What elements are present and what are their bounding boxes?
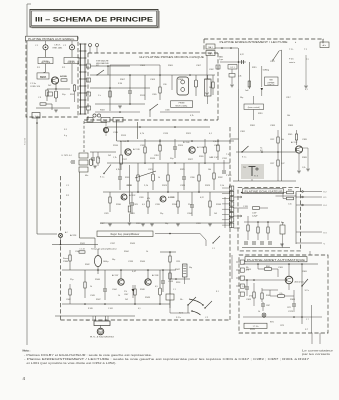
svg-text:b: b <box>295 42 297 44</box>
switch S2 <box>150 104 158 110</box>
switch S4 <box>188 297 196 305</box>
cap ll1 <box>103 288 107 290</box>
svg-text:0,22: 0,22 <box>240 54 244 56</box>
jack J2 <box>69 45 74 50</box>
svg-text:Le commutateur: Le commutateur <box>302 350 333 353</box>
eg wire k <box>276 195 297 197</box>
bottom jacks <box>93 114 96 117</box>
tape head TH3 symbol <box>251 167 253 177</box>
svg-text:R383: R383 <box>288 189 292 191</box>
svg-text:P 4 b: P 4 b <box>289 59 295 61</box>
svg-text:C324: C324 <box>214 145 220 147</box>
transistor Q8 <box>145 279 151 285</box>
aa right vline2 <box>311 305 313 333</box>
eg res 1 <box>287 191 294 194</box>
svg-text:2,2kpF: 2,2kpF <box>252 216 258 218</box>
svg-text:S 2 1: S 2 1 <box>230 67 234 69</box>
svg-text:0,1: 0,1 <box>138 308 141 310</box>
svg-text:R 4740: R 4740 <box>25 137 27 145</box>
svg-text:1k: 1k <box>118 295 121 297</box>
wire v137 <box>137 122 139 139</box>
svg-text:C317: C317 <box>122 159 128 161</box>
svg-text:C335: C335 <box>155 204 161 206</box>
svg-text:C319: C319 <box>163 133 169 135</box>
wire motor-l <box>92 316 94 319</box>
svg-text:R331: R331 <box>136 223 141 225</box>
svg-text:C347: C347 <box>124 294 128 296</box>
svg-text:C309: C309 <box>150 79 156 81</box>
svg-text:R309: R309 <box>178 79 184 81</box>
svg-text:0,47: 0,47 <box>132 271 137 273</box>
eg wire in4 <box>234 227 241 229</box>
svg-text:C 341: C 341 <box>108 308 113 310</box>
res l1 <box>109 197 111 203</box>
wire q1 <box>55 83 57 89</box>
svg-text:R324: R324 <box>178 145 184 147</box>
capacitor C3 <box>128 90 132 92</box>
svg-text:T 4 L: T 4 L <box>226 154 231 156</box>
cap l1 <box>130 202 134 204</box>
prise lecture box <box>38 58 53 64</box>
svg-text:6,8Meg: 6,8Meg <box>263 70 269 72</box>
bottom connector b2 <box>101 117 110 122</box>
wire c-top <box>215 47 238 49</box>
central platine right dashed <box>229 127 231 320</box>
svg-text:R383: R383 <box>288 125 294 127</box>
motor bus <box>55 315 135 317</box>
jack J1 <box>43 45 48 50</box>
svg-text:R 2: R 2 <box>62 67 66 69</box>
wire b-drop dashed <box>83 121 85 152</box>
platine prises aux enreg box <box>26 37 78 117</box>
platine prises aux enreg label <box>26 36 78 41</box>
wire ra1 down <box>206 56 208 93</box>
svg-text:2 W 4: 2 W 4 <box>226 175 232 177</box>
svg-text:R344: R344 <box>124 251 129 253</box>
res c-l3k <box>229 74 235 78</box>
svg-text:C331: C331 <box>222 158 228 160</box>
platine arret automatique label <box>245 257 307 262</box>
res m8 <box>167 175 169 181</box>
svg-text:1k: 1k <box>209 87 211 89</box>
svg-text:C322: C322 <box>270 139 274 141</box>
pin stack feeds <box>222 187 229 189</box>
pin right edge <box>216 65 220 69</box>
wire c to center <box>230 138 239 140</box>
svg-text:C313: C313 <box>270 61 275 63</box>
svg-text:C343: C343 <box>168 281 174 283</box>
wire long left <box>36 117 38 234</box>
svg-text:25µ: 25µ <box>160 213 164 215</box>
svg-text:4,7k: 4,7k <box>140 133 145 135</box>
svg-text:R338: R338 <box>216 204 222 206</box>
aa cap right <box>292 303 296 305</box>
svg-text:10k: 10k <box>281 139 284 141</box>
wire head link <box>233 180 296 182</box>
svg-text:R329: R329 <box>205 185 211 187</box>
svg-text:C323: C323 <box>126 185 132 187</box>
aa res left1 <box>253 292 255 298</box>
pin square b2 <box>87 78 91 82</box>
svg-text:50µ: 50µ <box>170 158 174 160</box>
svg-text:C329: C329 <box>104 213 109 215</box>
svg-text:R385: R385 <box>302 157 308 159</box>
wire arret top feed <box>309 251 311 255</box>
res m3 <box>159 145 161 151</box>
svg-text:C325: C325 <box>133 204 139 206</box>
svg-text:R88: R88 <box>269 79 272 81</box>
svg-text:K 3: K 3 <box>324 232 328 234</box>
svg-text:C 2: C 2 <box>205 317 209 319</box>
svg-text:2,87: 2,87 <box>281 163 285 165</box>
svg-text:1,7k: 1,7k <box>113 157 117 159</box>
svg-text:R303: R303 <box>100 110 105 112</box>
resistor R2 <box>46 90 48 96</box>
hatched cap <box>183 264 188 277</box>
svg-text:1k: 1k <box>258 311 261 313</box>
svg-text:C311: C311 <box>205 79 211 81</box>
svg-text:C 1.3a: C 1.3a <box>30 83 37 85</box>
res ll2 <box>79 251 85 253</box>
aa res mid <box>278 295 285 298</box>
svg-text:0,1: 0,1 <box>209 133 213 135</box>
svg-text:4,5k: 4,5k <box>279 293 282 295</box>
svg-text:C320: C320 <box>140 145 146 147</box>
svg-text:4: 4 <box>23 376 26 381</box>
cap l2 <box>190 204 194 206</box>
flying lead 2 <box>192 311 201 315</box>
aa res chain1 <box>261 293 263 299</box>
transistor Q7 <box>118 279 124 285</box>
wire c-down1b <box>238 62 240 89</box>
res m7 <box>137 175 139 181</box>
svg-text:R 1: R 1 <box>37 67 41 69</box>
svg-text:S 1: S 1 <box>216 291 219 293</box>
wire mid-right h <box>236 151 297 153</box>
wire regul right <box>155 233 200 235</box>
eg res v2 <box>257 227 259 233</box>
wire c-v2 <box>261 66 263 87</box>
feed vline 116 <box>116 120 118 141</box>
main wire 1 <box>117 140 234 142</box>
pin square b1 <box>87 64 91 68</box>
svg-text:AC 188: AC 188 <box>152 274 158 277</box>
svg-text:C318: C318 <box>154 155 159 157</box>
transistor Q5 <box>160 196 166 202</box>
svg-text:R332: R332 <box>218 177 223 179</box>
transistor Q2 <box>125 149 131 155</box>
svg-text:S 1 b: S 1 b <box>176 317 182 319</box>
svg-text:K 2: K 2 <box>324 192 328 194</box>
svg-text:C 1.34: C 1.34 <box>79 249 84 251</box>
svg-text:R326: R326 <box>199 156 204 158</box>
svg-text:1 T 4 b: 1 T 4 b <box>253 326 259 328</box>
svg-text:C365: C365 <box>278 267 284 269</box>
svg-text:4,8: 4,8 <box>260 150 263 152</box>
arret left pin squares <box>240 260 244 264</box>
svg-text:C306: C306 <box>165 110 170 112</box>
svg-text:S 1: S 1 <box>64 129 68 131</box>
wire c-cl <box>231 69 233 74</box>
wire a-bottom <box>51 104 53 110</box>
svg-text:R333: R333 <box>130 213 135 215</box>
svg-text:48v: 48v <box>85 175 88 177</box>
svg-text:- Platine ENREGISTREMENT / LEC: - Platine ENREGISTREMENT / LECTURE : seu… <box>24 357 310 361</box>
svg-text:1k: 1k <box>90 286 92 288</box>
transistor Q4 <box>121 194 127 200</box>
svg-text:C326: C326 <box>139 197 144 199</box>
aa base wire <box>278 279 285 281</box>
svg-text:S 1 a: S 1 a <box>100 177 104 179</box>
eg wire h1 <box>242 192 287 194</box>
svg-text:R315: R315 <box>252 67 257 69</box>
wire eg feed <box>224 197 226 228</box>
svg-text:M: M <box>99 330 101 334</box>
bottom connector b1 <box>87 117 93 122</box>
connector P1 <box>32 113 40 119</box>
svg-text:R381: R381 <box>250 125 256 127</box>
consigne box <box>265 77 279 86</box>
svg-text:A C: A C <box>65 231 69 234</box>
svg-text:C 2: C 2 <box>63 45 67 47</box>
svg-text:R369: R369 <box>290 299 296 301</box>
res tall 121 <box>120 155 123 164</box>
svg-text:R343: R343 <box>130 243 136 245</box>
svg-text:R345: R345 <box>288 134 292 136</box>
svg-text:C342: C342 <box>66 299 71 301</box>
svg-text:Temps de préamplificateur: Temps de préamplificateur <box>91 248 117 251</box>
svg-text:AC128: AC128 <box>70 234 77 237</box>
svg-text:25µ: 25µ <box>70 279 74 281</box>
svg-text:R363: R363 <box>246 269 252 271</box>
feed vline 106 <box>105 120 107 136</box>
svg-text:2k2: 2k2 <box>125 299 128 301</box>
wire c-h1 <box>220 61 246 63</box>
svg-text:LECTURE: LECTURE <box>41 62 51 64</box>
tape head TH3 box <box>241 164 264 179</box>
svg-text:R342: R342 <box>85 264 90 266</box>
svg-text:ENR. DAV.: ENR. DAV. <box>53 46 63 49</box>
aa cap C367 <box>261 303 265 305</box>
platine arret automatique box <box>239 255 328 333</box>
transistor Q1 <box>51 77 58 84</box>
svg-text:90 V: 90 V <box>179 313 184 315</box>
svg-text:LECT.: LECT. <box>55 45 61 47</box>
eg out right <box>296 231 322 233</box>
svg-text:4 g: 4 g <box>64 135 67 137</box>
aa connector box <box>244 323 267 328</box>
prise radio box <box>37 73 49 79</box>
svg-text:R334: R334 <box>172 204 178 206</box>
svg-text:C 1: C 1 <box>173 289 176 291</box>
svg-text:I L 7071 4 4: I L 7071 4 4 <box>61 155 72 157</box>
motor terminal block <box>94 321 110 326</box>
wire v129 <box>128 165 130 205</box>
res l4 <box>209 201 211 207</box>
electrolytic cap big <box>94 256 101 267</box>
svg-text:R 2: R 2 <box>66 195 70 197</box>
svg-text:C321: C321 <box>148 169 153 171</box>
mid wire <box>107 162 230 164</box>
res l3 <box>177 201 179 207</box>
svg-text:- Platines DOLBY et EGALISATEU: - Platines DOLBY et EGALISATEUR : seule … <box>24 353 152 357</box>
aa cap C47 <box>245 286 249 288</box>
svg-text:PLATINE PRISES AUX ENREG.: PLATINE PRISES AUX ENREG. <box>28 37 75 41</box>
svg-text:BC 148: BC 148 <box>183 142 189 144</box>
svg-text:0,5: 0,5 <box>155 286 158 288</box>
res Rb2 <box>212 82 214 88</box>
eg res 2 <box>287 197 294 200</box>
svg-text:C305: C305 <box>152 94 157 96</box>
svg-text:10k: 10k <box>158 145 162 147</box>
connector ladder A-B <box>80 44 82 114</box>
eg bottom caps <box>244 241 248 243</box>
svg-text:R307: R307 <box>120 79 126 81</box>
svg-text:R323: R323 <box>162 185 168 187</box>
capacitor C4 <box>195 80 198 87</box>
svg-text:50µ: 50µ <box>189 267 192 269</box>
svg-text:1k: 1k <box>98 158 101 160</box>
svg-text:AC 187: AC 187 <box>112 274 118 277</box>
svg-text:C303: C303 <box>140 65 146 67</box>
diode D c1 <box>261 88 264 91</box>
svg-text:R346: R346 <box>95 279 101 281</box>
svg-text:4,7k: 4,7k <box>116 169 120 171</box>
svg-text:1k: 1k <box>158 177 160 179</box>
svg-text:AC132 (1): AC132 (1) <box>295 281 304 284</box>
svg-text:R330: R330 <box>116 204 122 206</box>
eg res v1 <box>247 225 249 231</box>
resistor R3 <box>40 103 46 105</box>
svg-text:1,5kF: 1,5kF <box>252 213 257 215</box>
svg-text:1k: 1k <box>146 251 149 253</box>
svg-text:C,47: C,47 <box>242 286 246 288</box>
svg-text:C 3: C 3 <box>38 97 42 99</box>
svg-text:K 4: K 4 <box>324 205 328 207</box>
svg-text:T 2: T 2 <box>304 49 308 51</box>
aa res R361 <box>265 268 272 271</box>
wire a-out <box>71 64 73 84</box>
svg-text:50µ: 50µ <box>240 97 244 99</box>
platine egalisateur box <box>238 187 301 251</box>
svg-text:serie te: serie te <box>289 61 295 64</box>
wire center top <box>107 126 210 128</box>
svg-text:PLATINE EGALISATEUR: PLATINE EGALISATEUR <box>245 190 283 194</box>
svg-text:C330: C330 <box>190 177 195 179</box>
svg-text:R375: R375 <box>250 329 256 331</box>
svg-text:b d: b d <box>117 120 120 122</box>
pin square b3 <box>87 92 91 96</box>
svg-text:III – SCHEMA DE PRINCIPE: III – SCHEMA DE PRINCIPE <box>35 17 154 24</box>
low wire <box>103 191 230 193</box>
res mr1 <box>277 137 279 143</box>
wire q78 <box>120 270 122 279</box>
svg-text:1k5: 1k5 <box>214 213 217 215</box>
wire ll-2 <box>62 269 176 271</box>
switch regul <box>213 236 220 243</box>
central platine bottom dashed <box>61 319 231 321</box>
sheet left border <box>26 4 28 345</box>
plug connector X1 <box>58 233 62 237</box>
svg-text:R313: R313 <box>121 135 127 137</box>
eg bottom wire <box>242 247 290 249</box>
svg-text:R305: R305 <box>168 65 174 67</box>
regul freq preamplificateur label <box>97 231 153 237</box>
svg-text:R365: R365 <box>266 295 270 297</box>
svg-text:C385: C385 <box>302 139 308 141</box>
platine prises micros-casque box <box>88 52 218 54</box>
res ll5 <box>69 289 71 295</box>
svg-text:R 345: R 345 <box>88 308 93 310</box>
res ll1 <box>69 255 71 261</box>
wire lm-2 <box>170 312 190 314</box>
svg-text:1,5k: 1,5k <box>213 141 217 143</box>
svg-text:0,5: 0,5 <box>142 204 146 206</box>
svg-text:100µ P.U.: 100µ P.U. <box>267 84 275 86</box>
svg-text:a: a <box>93 119 95 121</box>
res m2 <box>144 147 146 153</box>
eg res 3 <box>253 207 260 210</box>
svg-text:2k2: 2k2 <box>108 155 111 157</box>
svg-text:R341: R341 <box>80 243 86 245</box>
wire b bottom run <box>95 111 140 113</box>
switch S3 <box>273 51 279 60</box>
wire jacks <box>45 64 47 72</box>
svg-text:C327: C327 <box>100 223 105 225</box>
svg-text:C 1: C 1 <box>35 45 39 47</box>
res mr3 <box>295 134 297 140</box>
svg-text:C 326: C 326 <box>243 206 248 208</box>
svg-text:4700: 4700 <box>249 296 253 298</box>
ecap ll <box>159 288 162 295</box>
aa wire top <box>243 263 318 265</box>
svg-text:C329: C329 <box>180 185 186 187</box>
aa transistor Q9 <box>285 276 293 284</box>
output stage res 2 <box>169 273 171 279</box>
eg wire in3 <box>234 215 241 217</box>
switch S1 <box>97 70 104 75</box>
switch S5 <box>205 301 212 308</box>
svg-text:47k: 47k <box>147 198 150 200</box>
wire c extra <box>305 55 307 85</box>
platine enregistrement-lecture box <box>204 38 324 40</box>
svg-text:C333: C333 <box>196 223 201 225</box>
wire b-main <box>90 74 215 76</box>
switch bank <box>79 153 88 158</box>
aa wire left top <box>243 279 278 281</box>
prise enreg box <box>64 58 79 64</box>
svg-text:H.V. 4740 MONO: H.V. 4740 MONO <box>90 337 114 339</box>
bottom connector b3 <box>113 117 123 122</box>
svg-text:R347: R347 <box>175 269 181 271</box>
cluster left <box>91 157 95 159</box>
aa plug X2 <box>262 313 266 317</box>
svg-text:C367: C367 <box>266 305 270 307</box>
svg-text:R353: R353 <box>176 282 180 284</box>
svg-text:Regul. freq. préamplificateur: Regul. freq. préamplificateur <box>111 233 140 236</box>
levier central box <box>244 104 264 110</box>
svg-text:MA 1: MA 1 <box>208 46 212 49</box>
svg-text:COND. S M: COND. S M <box>30 86 40 88</box>
wire b-2 <box>90 87 150 89</box>
svg-text:R319: R319 <box>258 113 263 115</box>
pot B1 <box>205 79 212 96</box>
wire c-down2 <box>281 50 283 181</box>
svg-text:1,2k: 1,2k <box>302 167 305 169</box>
connector box RA1 <box>206 51 215 56</box>
svg-text:BC 148: BC 148 <box>120 141 126 143</box>
wire b-top <box>90 65 130 67</box>
